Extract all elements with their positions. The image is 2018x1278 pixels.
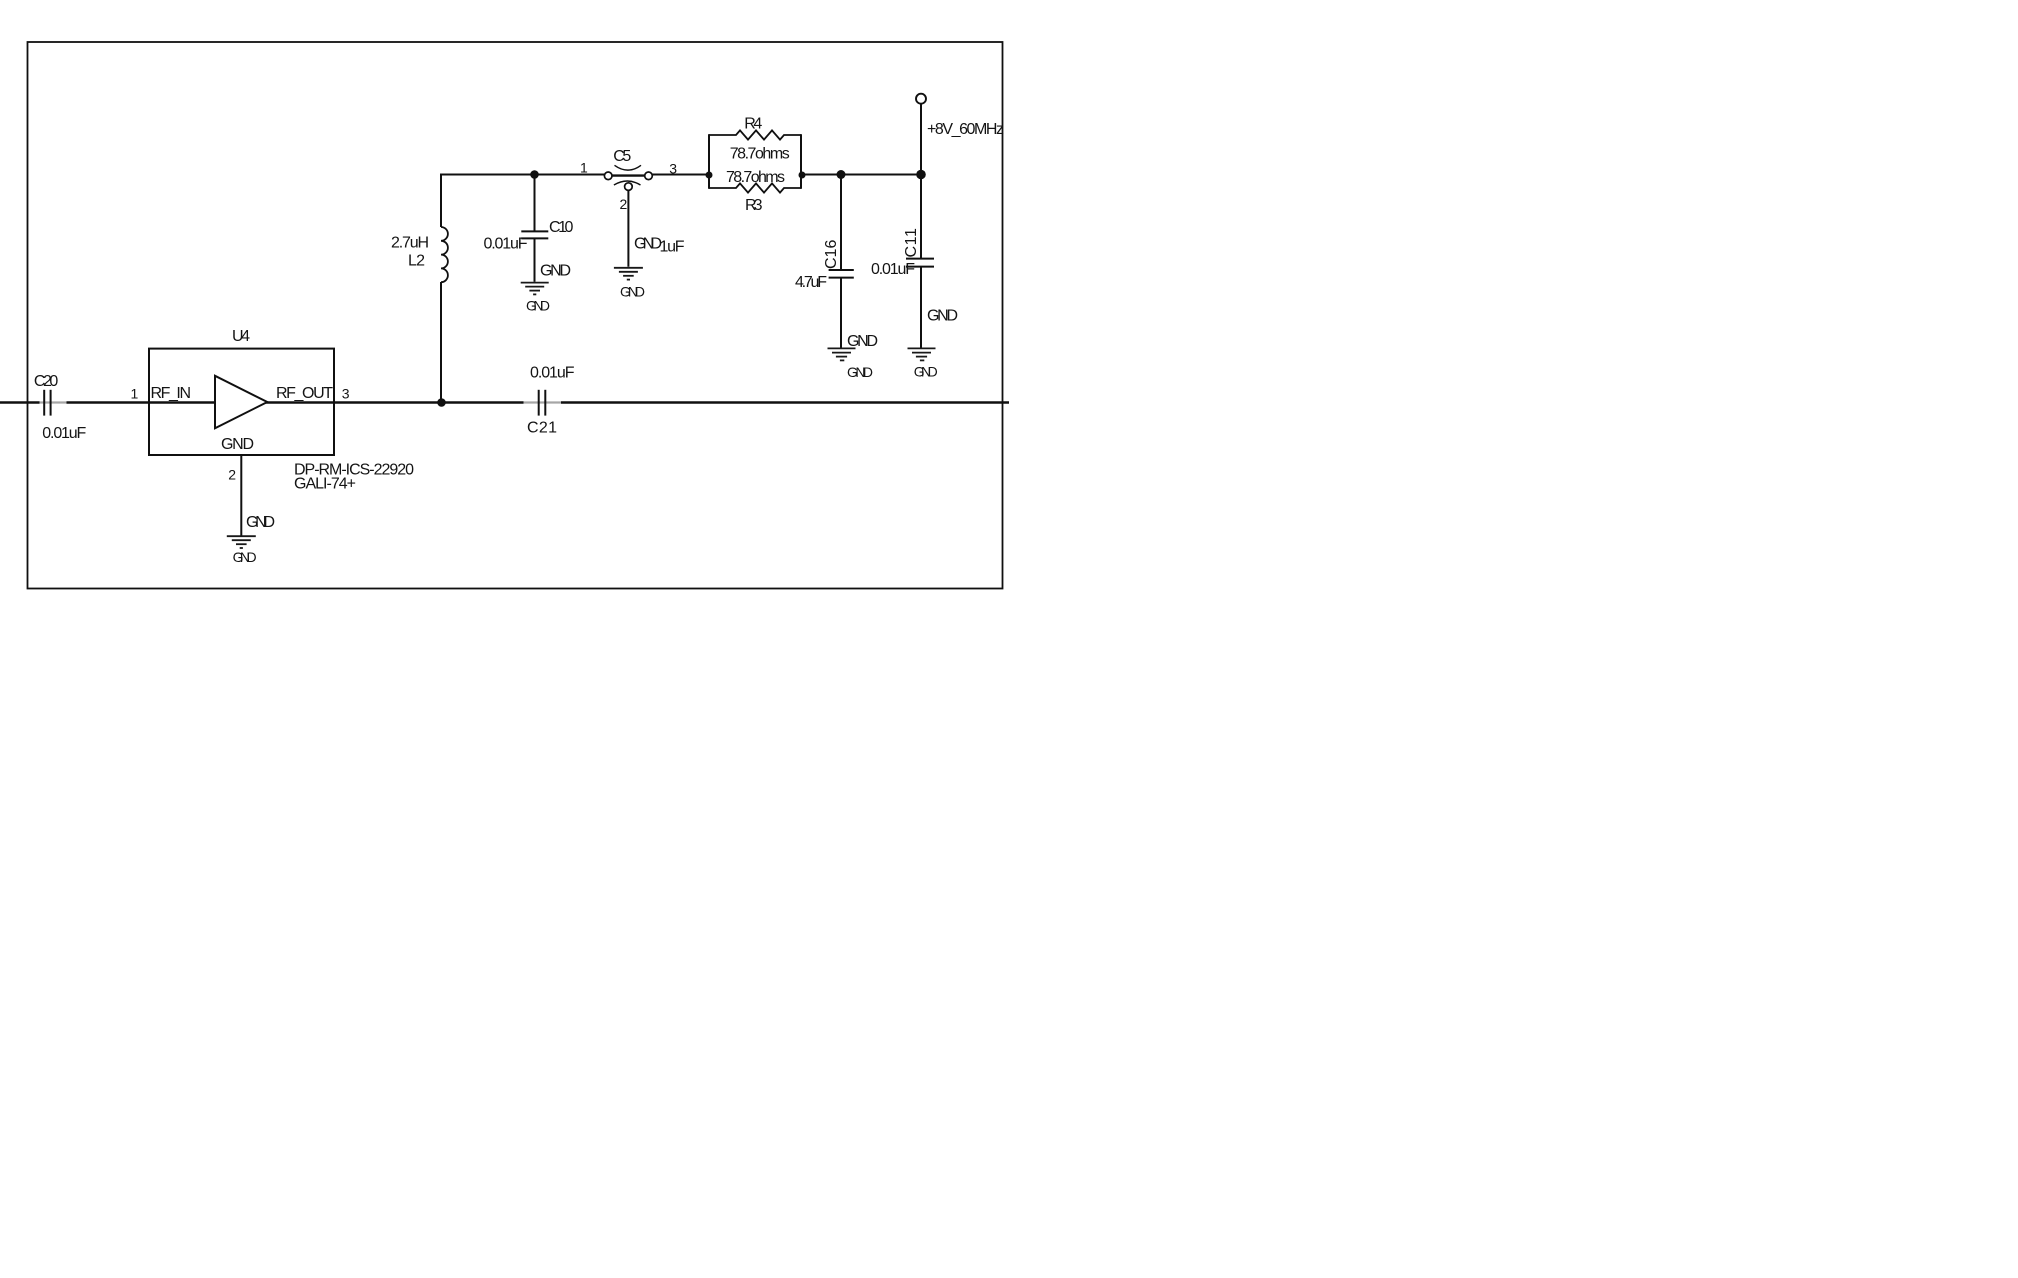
svg-text:GND: GND (221, 436, 254, 453)
wire C5 pin 2 to ground (627, 191, 629, 267)
C21 value label (530, 365, 575, 382)
svg-text:2: 2 (620, 196, 628, 212)
resistor R4 (top of parallel pair) (709, 130, 801, 139)
wire L2 branch vertical (440, 174, 442, 403)
GND net label at C16 (847, 333, 878, 350)
inductor L2 (441, 227, 448, 282)
svg-text:L2: L2 (408, 252, 425, 269)
R4 value label (730, 145, 790, 162)
junction node C16/top bus (837, 170, 846, 179)
svg-text:0.01uF: 0.01uF (484, 235, 528, 252)
svg-text:GALI-74+: GALI-74+ (294, 476, 356, 493)
svg-text:2.7uH: 2.7uH (391, 234, 429, 251)
svg-text:C21: C21 (527, 419, 557, 436)
svg-text:R3: R3 (745, 197, 763, 214)
svg-text:3: 3 (342, 385, 350, 401)
C11 value label (871, 261, 915, 278)
svg-text:1: 1 (580, 160, 588, 176)
svg-text:C5: C5 (613, 148, 631, 165)
svg-text:1: 1 (131, 385, 139, 401)
svg-text:GND: GND (847, 333, 878, 350)
junction node R4R3 right (799, 172, 806, 179)
GND label under C11 ground (914, 364, 938, 380)
C5 ref label (613, 148, 631, 165)
junction node C10/top bus (530, 170, 539, 179)
svg-text:GND: GND (540, 263, 571, 280)
wire top supply bus horizontal (441, 174, 921, 176)
capacitor C20 plates (44, 390, 50, 416)
C5 upper arc plate (615, 165, 642, 170)
wire R4R3 left vertical (708, 134, 710, 189)
svg-text:RF_OUT: RF_OUT (276, 385, 333, 402)
wire C10 stem (534, 175, 536, 282)
R3 value label (726, 169, 785, 186)
power net label +8V_60MHz (927, 121, 1004, 138)
R4 ref label (744, 115, 762, 132)
C5 lower arc plate (614, 181, 641, 185)
schematic sheet border (28, 42, 1003, 589)
C5 left terminal circle (604, 172, 612, 180)
U4 pin name RF_IN (151, 385, 192, 402)
ground symbol C5 (614, 268, 643, 280)
wire RF main horizontal net (0, 401, 1009, 404)
capacitor C21 plates (539, 390, 546, 416)
C16 ref label (rotated) (823, 240, 840, 269)
U4 part number labels (294, 462, 414, 493)
wire power stem / C11 stem (920, 104, 922, 349)
C20 value label (42, 425, 86, 442)
ground symbol C16 (828, 348, 856, 360)
GND label under C10 ground (526, 298, 550, 314)
C21 ref label (527, 419, 557, 436)
U4 pin number 1 (131, 385, 139, 401)
U4 pin name GND (221, 436, 254, 453)
svg-text:+8V_60MHz: +8V_60MHz (927, 121, 1004, 138)
C11 ref label (rotated) (903, 228, 920, 257)
C5 pin number 2 (620, 196, 628, 212)
svg-text:RF_IN: RF_IN (151, 385, 192, 402)
svg-text:GND: GND (634, 236, 662, 253)
U4 pin number 3 (342, 385, 350, 401)
wire R4R3 right vertical (800, 134, 802, 189)
GND label under C16 ground (847, 364, 873, 380)
svg-text:GND: GND (233, 549, 257, 565)
C5 wiper terminal circle (625, 183, 633, 191)
wire gray segment under C20 (40, 401, 67, 403)
junction node R4R3 left (706, 172, 713, 179)
svg-text:GND: GND (847, 364, 873, 380)
svg-text:4.7uF: 4.7uF (795, 274, 827, 291)
wire C16 stem (840, 175, 842, 349)
svg-text:0.01uF: 0.01uF (42, 425, 86, 442)
resistor R3 (bottom of parallel pair) (709, 183, 801, 192)
C5 pin number 1 (580, 160, 588, 176)
svg-text:GND: GND (526, 298, 550, 314)
svg-text:U4: U4 (232, 328, 250, 345)
C5 pin number 3 (669, 161, 677, 177)
GND net label at C5 (634, 236, 662, 253)
U4 pin name RF_OUT (276, 385, 333, 402)
C10 ref label (549, 219, 573, 236)
L2 value label 2.7uH (391, 234, 429, 251)
C5 right terminal circle (645, 172, 653, 180)
U4 ref label (232, 328, 250, 345)
R3 ref label (745, 197, 763, 214)
GND net label at C10 (540, 263, 571, 280)
ground symbol C11 (908, 348, 936, 360)
junction node L2/RF wire (437, 398, 446, 407)
C10 value label (484, 235, 528, 252)
GND net label at C11 (927, 307, 958, 324)
svg-text:C10: C10 (549, 219, 573, 236)
svg-text:1uF: 1uF (660, 239, 685, 256)
ground symbol U4 pin 2 (227, 536, 256, 548)
wire gray segment under C21 (524, 401, 562, 403)
junction node C11/top bus (916, 170, 926, 180)
svg-text:0.01uF: 0.01uF (871, 261, 915, 278)
C16 value label (795, 274, 827, 291)
capacitor C11 plates (906, 259, 934, 267)
svg-text:C11: C11 (903, 228, 920, 257)
svg-text:GND: GND (914, 364, 938, 380)
svg-text:GND: GND (246, 514, 275, 531)
svg-text:2: 2 (228, 467, 236, 483)
U4 pin number 2 (228, 467, 236, 483)
svg-text:C16: C16 (823, 240, 840, 269)
svg-text:R4: R4 (744, 115, 762, 132)
U4 amplifier triangle (215, 376, 267, 429)
C20 ref label (34, 373, 58, 390)
op-amp U4 box (149, 349, 334, 455)
svg-text:C20: C20 (34, 373, 58, 390)
power terminal +8V circle (916, 94, 926, 104)
capacitor C10 plates (521, 231, 548, 238)
C5 bar plate (612, 174, 645, 176)
wire U4 pin 2 to ground (240, 455, 242, 536)
ground symbol C10 (521, 283, 549, 295)
svg-text:3: 3 (669, 161, 677, 177)
GND label under C5 ground (620, 284, 645, 300)
C5 value label 1uF (660, 239, 685, 256)
svg-text:GND: GND (620, 284, 645, 300)
svg-text:78.7ohms: 78.7ohms (730, 145, 790, 162)
svg-text:78.7ohms: 78.7ohms (726, 169, 785, 186)
L2 ref label (408, 252, 425, 269)
svg-text:GND: GND (927, 307, 958, 324)
capacitor C16 plates (829, 270, 854, 278)
GND label under U4 ground (233, 549, 257, 565)
svg-text:0.01uF: 0.01uF (530, 365, 575, 382)
GND net label at U4 pin 2 (246, 514, 275, 531)
